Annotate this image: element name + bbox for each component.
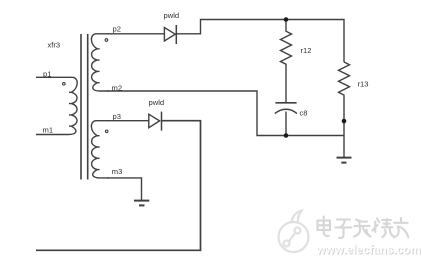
svg-text:m2: m2: [112, 83, 123, 92]
svg-text:r13: r13: [358, 79, 369, 88]
svg-text:pwld: pwld: [149, 98, 165, 107]
svg-text:xfr3: xfr3: [48, 41, 61, 50]
svg-text:p1: p1: [43, 69, 51, 78]
svg-text:p2: p2: [113, 25, 121, 34]
svg-text:p3: p3: [113, 112, 121, 121]
svg-text:c8: c8: [300, 108, 308, 117]
svg-text:r12: r12: [301, 46, 312, 55]
svg-text:m3: m3: [112, 167, 123, 176]
svg-text:m1: m1: [43, 125, 54, 134]
svg-text:www.elecfans.com: www.elecfans.com: [316, 244, 421, 256]
svg-text:pwld: pwld: [164, 11, 180, 20]
